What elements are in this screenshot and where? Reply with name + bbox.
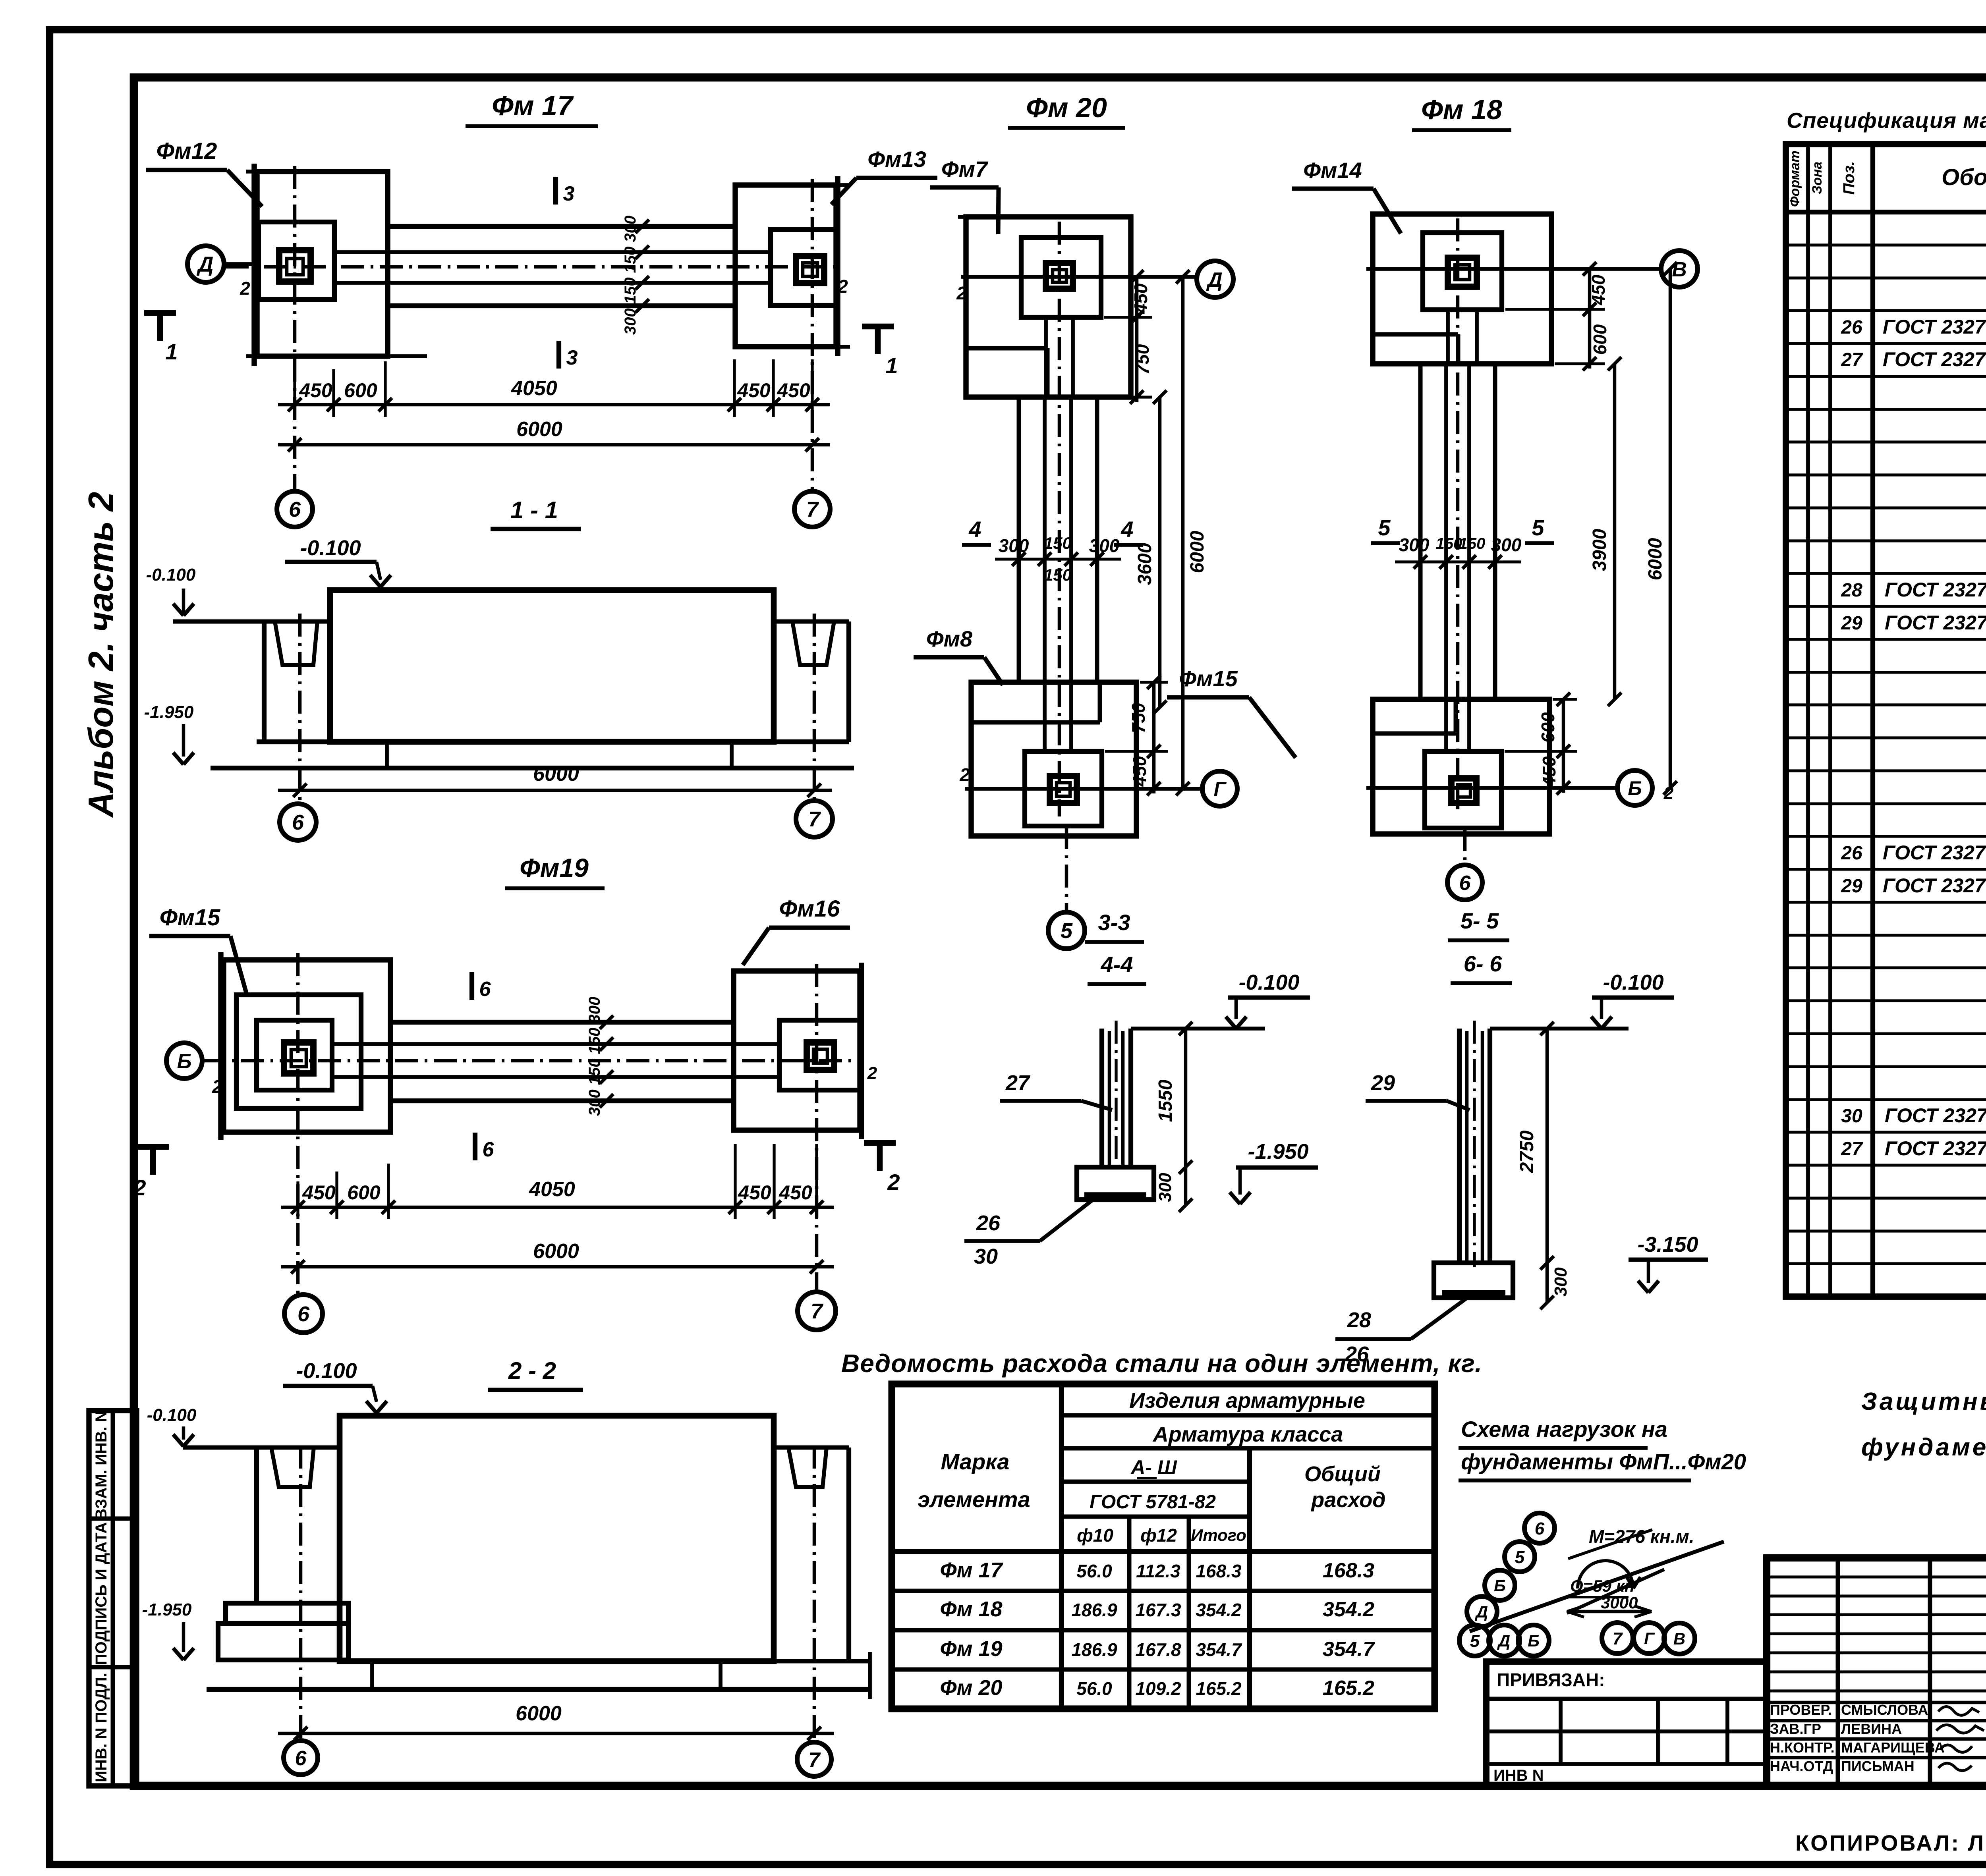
svg-text:300: 300 <box>1399 535 1430 555</box>
svg-text:6000: 6000 <box>1187 531 1208 573</box>
svg-text:6: 6 <box>483 1138 495 1161</box>
svg-text:Защитный слой бетона для армат: Защитный слой бетона для арматуры подошв… <box>1861 1388 1986 1415</box>
svg-text:150: 150 <box>1459 535 1486 552</box>
section mark 3 upper <box>553 177 558 205</box>
detail 55 top line <box>1490 1027 1629 1031</box>
svg-text:300: 300 <box>1155 1173 1175 1202</box>
FM17 left foundation pad <box>259 222 334 299</box>
svg-text:ПОДПИСЬ И ДАТА: ПОДПИСЬ И ДАТА <box>93 1522 110 1665</box>
svg-text:МАГАРИЩЕВА: МАГАРИЩЕВА <box>1841 1739 1945 1756</box>
svg-text:450: 450 <box>1130 283 1151 314</box>
svg-text:Фм 20: Фм 20 <box>940 1676 1002 1700</box>
svg-text:В: В <box>1672 258 1687 281</box>
svg-text:Общий: Общий <box>1304 1462 1381 1486</box>
svg-text:450: 450 <box>302 1181 336 1204</box>
svg-text:Альбом 2. часть 2: Альбом 2. часть 2 <box>81 492 120 818</box>
svg-text:Б: Б <box>1494 1576 1506 1595</box>
svg-text:186.9: 186.9 <box>1071 1600 1117 1620</box>
svg-text:750: 750 <box>1128 703 1149 733</box>
svg-text:5: 5 <box>1061 919 1073 943</box>
svg-text:7: 7 <box>808 807 821 831</box>
svg-text:6: 6 <box>289 498 301 521</box>
svg-text:56.0: 56.0 <box>1076 1561 1112 1581</box>
svg-text:элемента: элемента <box>918 1487 1030 1512</box>
section mark 3 lower <box>556 341 561 369</box>
detail 55 pier <box>1457 1029 1462 1263</box>
FM17 right pier <box>796 256 824 283</box>
svg-text:6000: 6000 <box>533 762 579 786</box>
FM19 axis B centerline <box>203 1059 863 1063</box>
svg-text:-1.950: -1.950 <box>144 703 194 722</box>
svg-text:-3.150: -3.150 <box>1637 1233 1698 1256</box>
svg-text:-0.100: -0.100 <box>147 1405 197 1425</box>
svg-text:3600: 3600 <box>1134 542 1155 585</box>
svg-text:Фм 18: Фм 18 <box>940 1597 1002 1621</box>
svg-text:ГОСТ 5781-82: ГОСТ 5781-82 <box>1090 1492 1216 1513</box>
FM20 bottom pier <box>1050 776 1077 803</box>
svg-text:Б: Б <box>1628 777 1642 799</box>
FM20 top foundation pad <box>1021 237 1101 317</box>
svg-text:450: 450 <box>779 1181 812 1204</box>
FM17 left pier <box>279 250 311 282</box>
FM19 axis 7 centerline <box>815 964 819 1293</box>
svg-text:Поз.: Поз. <box>1840 161 1858 195</box>
svg-text:4: 4 <box>1121 517 1133 542</box>
svg-text:Марка: Марка <box>941 1449 1010 1474</box>
section 2-2 beam block <box>340 1416 774 1661</box>
svg-text:300: 300 <box>1551 1267 1571 1297</box>
spec table header row <box>1786 210 1986 214</box>
detail 55 footing <box>1434 1263 1513 1298</box>
FM17 beam lines inside foundations <box>334 250 388 254</box>
svg-text:-0.100: -0.100 <box>296 1359 357 1383</box>
FM18 top pier <box>1448 258 1477 287</box>
svg-text:450: 450 <box>1129 756 1150 787</box>
load scheme dim 3000 <box>1567 1610 1652 1614</box>
FM18 top foundation pad <box>1423 233 1502 310</box>
svg-text:НАЧ.ОТД: НАЧ.ОТД <box>1770 1758 1833 1774</box>
svg-text:27: 27 <box>1005 1071 1031 1095</box>
svg-text:6- 6: 6- 6 <box>1464 951 1502 976</box>
svg-text:450: 450 <box>299 379 332 401</box>
load scheme axis circles diagonal <box>1524 1513 1555 1543</box>
svg-text:Фм 18: Фм 18 <box>1421 94 1502 125</box>
FM17 left foundation outline <box>257 172 388 356</box>
svg-text:Фм 20: Фм 20 <box>1026 92 1107 123</box>
svg-text:7: 7 <box>809 1749 821 1772</box>
FM19 right foundation pad <box>779 1020 860 1090</box>
left margin stamp box <box>89 1411 137 1786</box>
FM18 vertical axis centerline <box>1456 218 1460 809</box>
title block left grid <box>1836 1558 1840 1786</box>
FM17 dimension line 450 600 4050 450 450 <box>293 379 296 417</box>
FM20 top foundation outline <box>966 217 1131 397</box>
svg-text:6000: 6000 <box>533 1240 579 1263</box>
svg-text:Фм8: Фм8 <box>926 626 973 651</box>
svg-text:167.8: 167.8 <box>1135 1639 1181 1660</box>
svg-text:Д: Д <box>1497 1631 1510 1650</box>
svg-text:фундаменты ФмП...Фм20: фундаменты ФмП...Фм20 <box>1461 1449 1746 1474</box>
svg-text:ГОСТ 23279-85: ГОСТ 23279-85 <box>1885 1137 1986 1160</box>
svg-text:165.2: 165.2 <box>1196 1678 1242 1699</box>
grid circle 7 section 1-1 <box>796 801 833 837</box>
section mark 2 left <box>137 1144 169 1150</box>
svg-text:Фм15: Фм15 <box>1179 666 1238 691</box>
svg-text:3900: 3900 <box>1589 529 1610 571</box>
svg-text:-0.100: -0.100 <box>1238 971 1299 994</box>
svg-text:-0.100: -0.100 <box>1603 971 1663 994</box>
load scheme second diagonal <box>1567 1569 1664 1613</box>
section mark 2 right <box>864 1140 896 1146</box>
svg-text:2: 2 <box>867 1063 877 1083</box>
svg-text:5: 5 <box>1378 515 1391 540</box>
FM18 pier shaft lower <box>1444 699 1448 751</box>
svg-text:Д: Д <box>197 253 214 276</box>
grid circle B2 <box>1617 770 1652 805</box>
detail 33 pier <box>1099 1029 1104 1167</box>
svg-text:2: 2 <box>212 1076 222 1097</box>
grid circle B <box>166 1043 202 1079</box>
svg-text:ГОСТ 23279-85: ГОСТ 23279-85 <box>1885 1104 1986 1127</box>
load scheme diagonal line <box>1470 1542 1724 1631</box>
svg-text:3: 3 <box>563 182 575 205</box>
svg-text:165.2: 165.2 <box>1323 1677 1374 1700</box>
svg-text:29: 29 <box>1841 613 1862 634</box>
svg-text:56.0: 56.0 <box>1076 1678 1112 1699</box>
svg-text:600: 600 <box>344 379 377 401</box>
svg-text:6: 6 <box>1459 872 1471 895</box>
FM20 dim 6000 <box>1181 277 1185 789</box>
svg-text:300: 300 <box>1491 535 1522 555</box>
svg-text:167.3: 167.3 <box>1135 1600 1181 1620</box>
svg-text:600: 600 <box>1538 712 1558 743</box>
svg-text:КОПИРОВАЛ: ЛОГИНОВА: КОПИРОВАЛ: ЛОГИНОВА <box>1795 1830 1986 1855</box>
svg-text:ГОСТ 23279-85: ГОСТ 23279-85 <box>1885 612 1986 634</box>
svg-text:27: 27 <box>1841 1139 1863 1160</box>
FM18 dim 6000 <box>1669 269 1672 788</box>
svg-text:6000: 6000 <box>516 418 562 441</box>
svg-text:ИНВ. N ПОДЛ.: ИНВ. N ПОДЛ. <box>93 1673 110 1782</box>
FM18 shaft <box>1418 364 1423 699</box>
svg-text:1: 1 <box>885 353 898 378</box>
svg-text:4: 4 <box>968 517 981 542</box>
FM18 bottom pier <box>1451 778 1476 803</box>
svg-text:Д: Д <box>1206 268 1223 291</box>
FM20 top dim 450 750 <box>1104 316 1152 318</box>
grid circle 5 below FM20 <box>1065 826 1068 912</box>
spec table column lines <box>1806 144 1810 1297</box>
FM18 top foundation outline <box>1373 214 1551 364</box>
svg-text:ИНВ N: ИНВ N <box>1493 1767 1544 1784</box>
svg-text:300 150 150 300: 300 150 150 300 <box>586 997 603 1116</box>
svg-text:М=276 кн.м.: М=276 кн.м. <box>1589 1526 1694 1547</box>
svg-text:Фм 17: Фм 17 <box>940 1558 1003 1582</box>
FM20 dim 3600 <box>1158 397 1162 707</box>
svg-text:5: 5 <box>1532 515 1544 540</box>
svg-text:30: 30 <box>1841 1106 1862 1127</box>
svg-text:ГОСТ 23279-85: ГОСТ 23279-85 <box>1883 841 1986 864</box>
svg-text:2 - 2: 2 - 2 <box>508 1357 556 1384</box>
svg-text:6: 6 <box>1535 1519 1545 1538</box>
svg-text:168.3: 168.3 <box>1323 1559 1374 1582</box>
detail 33 footing <box>1077 1167 1154 1200</box>
svg-text:150: 150 <box>1044 534 1072 552</box>
svg-text:6000: 6000 <box>1645 538 1666 580</box>
FM18 bottom foundation outline <box>1373 699 1549 834</box>
grid circle 7 plan FM17 <box>794 491 830 527</box>
svg-text:7: 7 <box>811 1299 824 1323</box>
section 2-2 ground line left <box>183 1446 340 1450</box>
section 1-1 ground line left <box>173 620 330 624</box>
svg-text:6: 6 <box>298 1302 310 1326</box>
detail 33 dim 1550 <box>1184 1029 1188 1167</box>
FM20 bottom dim 750 450 <box>1140 681 1168 683</box>
svg-text:450: 450 <box>1539 756 1559 787</box>
FM20 bottom foundation pad <box>1025 751 1102 826</box>
svg-text:фундаментов - 35мм. для осталь: фундаментов - 35мм. для остальной - 20 м… <box>1861 1434 1986 1461</box>
FM20 pier shaft lower <box>1043 682 1047 751</box>
spec table row lines <box>1786 243 1986 246</box>
svg-text:4050: 4050 <box>511 377 557 400</box>
svg-text:600: 600 <box>347 1181 381 1204</box>
FM18 dim 3900 <box>1613 364 1617 699</box>
FM19 right pier <box>807 1042 834 1070</box>
svg-text:3000: 3000 <box>1601 1593 1638 1612</box>
FM17 axis 7 centerline <box>811 179 814 491</box>
section mark 1 right <box>862 324 894 330</box>
svg-text:6000: 6000 <box>516 1702 562 1725</box>
svg-text:26: 26 <box>976 1211 1001 1235</box>
svg-text:ГОСТ 23279-85: ГОСТ 23279-85 <box>1883 348 1986 371</box>
svg-text:354.2: 354.2 <box>1196 1600 1242 1620</box>
svg-text:Фм19: Фм19 <box>520 853 589 882</box>
svg-text:6: 6 <box>479 978 491 1001</box>
svg-text:ГОСТ 23279-85: ГОСТ 23279-85 <box>1883 316 1986 338</box>
FM17 right foundation pad <box>771 230 836 305</box>
svg-text:30: 30 <box>974 1245 998 1268</box>
section 1-1 axis 6 <box>298 614 302 804</box>
svg-text:2750: 2750 <box>1517 1130 1538 1173</box>
svg-text:Б: Б <box>177 1050 192 1073</box>
svg-text:2: 2 <box>956 283 967 303</box>
svg-text:150: 150 <box>1436 535 1462 552</box>
detail 33 dim 300 <box>1184 1167 1188 1205</box>
svg-text:Спецификация манолитных фундам: Спецификация манолитных фундаментов Фм17… <box>1787 108 1986 133</box>
FM17 dimension line 6000 <box>278 443 830 447</box>
svg-text:354.7: 354.7 <box>1196 1639 1242 1660</box>
steel table grid <box>892 1384 1435 1709</box>
section 1-1 dim 6000 <box>278 789 832 792</box>
svg-text:4050: 4050 <box>529 1178 575 1201</box>
title block frame <box>1767 1558 1986 1786</box>
svg-text:ВЗАМ. ИНВ. N: ВЗАМ. ИНВ. N <box>93 1411 110 1520</box>
svg-text:5- 5: 5- 5 <box>1461 908 1499 933</box>
svg-text:750: 750 <box>1132 344 1153 374</box>
svg-text:Формат: Формат <box>1787 151 1802 207</box>
FM19 beam lines <box>390 1020 734 1025</box>
svg-text:109.2: 109.2 <box>1135 1678 1181 1699</box>
FM19 left foundation ring2 <box>236 995 361 1108</box>
svg-text:Q=59 кн: Q=59 кн <box>1570 1577 1634 1596</box>
svg-text:Фм12: Фм12 <box>156 138 217 164</box>
svg-text:2: 2 <box>959 764 970 785</box>
svg-text:26: 26 <box>1841 843 1862 864</box>
svg-text:6: 6 <box>292 811 304 834</box>
svg-text:1 - 1: 1 - 1 <box>510 497 558 523</box>
svg-text:Фм13: Фм13 <box>867 147 926 172</box>
section 2-2 axis 6 <box>299 1446 303 1739</box>
FM18 axis V line <box>1366 267 1660 271</box>
svg-text:4-4: 4-4 <box>1101 952 1133 977</box>
svg-text:27: 27 <box>1841 349 1863 371</box>
svg-text:-1.950: -1.950 <box>142 1600 192 1619</box>
svg-text:-1.950: -1.950 <box>1248 1140 1308 1164</box>
svg-text:2: 2 <box>240 278 250 299</box>
detail 33 top line <box>1131 1027 1265 1031</box>
svg-text:2: 2 <box>133 1175 146 1200</box>
grid circle 6 plan FM17 <box>277 491 313 527</box>
grid circle 6 plan FM19 <box>284 1295 323 1333</box>
section 2-2 left cup <box>254 1448 259 1603</box>
svg-text:ЛЕВИНА: ЛЕВИНА <box>1841 1721 1902 1737</box>
FM19 left pier <box>284 1042 313 1073</box>
load scheme bottom circles left <box>1459 1625 1490 1656</box>
svg-text:Фм14: Фм14 <box>1303 158 1362 183</box>
FM18 axis B2 line <box>1366 786 1616 790</box>
svg-text:Б: Б <box>1528 1631 1540 1650</box>
svg-text:ГОСТ 23279-85: ГОСТ 23279-85 <box>1883 874 1986 897</box>
FM20 axis G line <box>965 787 1200 791</box>
svg-text:ПРИВЯЗАН:: ПРИВЯЗАН: <box>1497 1669 1605 1690</box>
FM17 axis 6 centerline <box>293 166 297 491</box>
FM18 top dim 450 600 <box>1505 308 1605 311</box>
svg-text:3: 3 <box>566 346 578 369</box>
grid circle 7 section 2-2 <box>797 1742 831 1776</box>
detail 55 dim 2750 <box>1546 1029 1549 1263</box>
FM20 shaft <box>1017 397 1021 682</box>
FM17 right foundation outline <box>735 185 836 347</box>
FM19 right foundation outline <box>734 971 860 1130</box>
section 1-1 footing slab <box>257 739 849 744</box>
svg-text:6: 6 <box>295 1747 307 1770</box>
FM20 vertical axis centerline <box>1058 222 1061 816</box>
svg-text:2: 2 <box>837 276 848 297</box>
FM18 bottom dim 600 450 <box>1553 698 1577 701</box>
grid circle G <box>1202 771 1237 806</box>
svg-text:Г: Г <box>1644 1629 1655 1648</box>
svg-text:Арматура класса: Арматура класса <box>1152 1422 1343 1446</box>
section 1-1 axis 7 <box>813 614 816 804</box>
grid circle D <box>1197 261 1233 297</box>
svg-text:450: 450 <box>1588 274 1609 305</box>
svg-text:Схема нагрузок на: Схема нагрузок на <box>1461 1417 1667 1442</box>
svg-text:Зона: Зона <box>1810 162 1825 194</box>
svg-text:Фм16: Фм16 <box>779 896 840 922</box>
svg-text:Г: Г <box>1214 778 1227 800</box>
svg-text:1550: 1550 <box>1155 1079 1176 1122</box>
svg-text:5: 5 <box>1515 1548 1525 1567</box>
svg-text:расход: расход <box>1310 1488 1385 1512</box>
svg-text:Обозначение: Обозначение <box>1942 164 1986 190</box>
svg-text:Фм15: Фм15 <box>160 905 220 930</box>
svg-text:450: 450 <box>738 1181 771 1204</box>
FM19 beam lines inside foundations <box>332 1042 390 1046</box>
svg-text:-0.100: -0.100 <box>300 536 361 560</box>
svg-text:ф10: ф10 <box>1077 1525 1113 1546</box>
svg-text:2: 2 <box>1663 784 1674 803</box>
grid circle 7 plan FM19 <box>798 1292 836 1330</box>
FM17 beam lines <box>388 224 735 229</box>
FM20 pier shaft upper <box>1044 317 1048 397</box>
grid circle A <box>187 246 224 282</box>
section mark 6 upper <box>469 972 474 1000</box>
svg-text:168.3: 168.3 <box>1196 1561 1242 1581</box>
svg-text:Д: Д <box>1475 1602 1488 1621</box>
svg-text:5: 5 <box>1470 1631 1480 1651</box>
svg-text:450: 450 <box>737 379 771 401</box>
svg-text:Фм7: Фм7 <box>941 156 989 181</box>
load scheme bottom circles right <box>1602 1623 1633 1654</box>
section 2-2 left footing <box>226 1603 348 1623</box>
section mark 1 left <box>144 310 176 316</box>
svg-text:ГОСТ 23279-85: ГОСТ 23279-85 <box>1885 579 1986 601</box>
privyazan box <box>1486 1662 1767 1786</box>
section 1-1 beam block <box>330 590 774 742</box>
svg-text:Итого: Итого <box>1191 1526 1246 1544</box>
FM20 axis D line <box>961 275 1195 279</box>
FM19 dimension line 450 600 4050 450 450 <box>296 1181 299 1219</box>
svg-text:В: В <box>1673 1629 1685 1648</box>
FM20 top pier <box>1046 263 1073 289</box>
section 1-1 left cup <box>262 621 267 742</box>
svg-text:186.9: 186.9 <box>1071 1639 1117 1660</box>
svg-text:2: 2 <box>887 1170 900 1195</box>
svg-text:3-3: 3-3 <box>1098 910 1130 935</box>
svg-text:29: 29 <box>1841 876 1862 897</box>
FM19 left foundation ring3 <box>257 1020 332 1090</box>
svg-text:7: 7 <box>806 498 819 521</box>
svg-text:Фм 17: Фм 17 <box>492 90 574 121</box>
svg-text:Фм 19: Фм 19 <box>940 1637 1002 1661</box>
section 2-2 dim 6000 <box>278 1732 834 1735</box>
grid circle 6 section 1-1 <box>280 804 316 840</box>
section 2-2 right cup <box>774 1446 849 1450</box>
svg-text:-0.100: -0.100 <box>146 565 196 585</box>
svg-text:112.3: 112.3 <box>1136 1561 1180 1581</box>
svg-text:Н.КОНТР.: Н.КОНТР. <box>1770 1739 1835 1756</box>
svg-text:А- Ш: А- Ш <box>1130 1456 1177 1478</box>
grid circle V <box>1661 251 1698 287</box>
grid circle 6 section 2-2 <box>284 1741 318 1775</box>
section 2-2 bottom slab <box>348 1659 870 1664</box>
FM19 dimension line 6000 <box>281 1265 834 1269</box>
svg-text:7: 7 <box>1613 1629 1623 1648</box>
svg-text:ЗАВ.ГР: ЗАВ.ГР <box>1770 1721 1821 1737</box>
section 2-2 axis 7 <box>813 1446 816 1742</box>
load scheme moment arc <box>1578 1561 1633 1588</box>
svg-text:ПИСЬМАН: ПИСЬМАН <box>1841 1758 1915 1774</box>
section mark 6 lower <box>473 1133 477 1160</box>
svg-text:450: 450 <box>777 379 810 401</box>
FM19 axis 6 centerline <box>296 953 300 1295</box>
section 1-1 right cup <box>774 620 849 624</box>
FM18 bottom foundation pad <box>1425 751 1501 828</box>
svg-text:26: 26 <box>1841 317 1862 338</box>
FM19 left foundation outline <box>224 960 390 1132</box>
svg-text:ф12: ф12 <box>1140 1525 1177 1546</box>
spec table frame <box>1786 144 1986 1297</box>
FM18 pier shaft upper <box>1446 310 1450 364</box>
